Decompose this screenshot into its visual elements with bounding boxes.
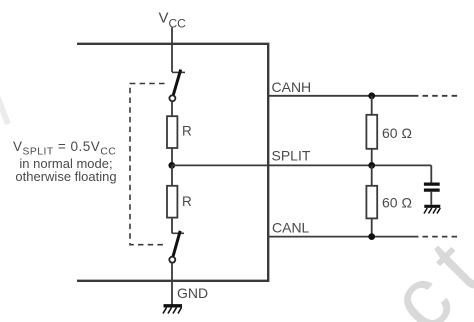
svg-text:R: R: [182, 194, 192, 209]
capacitor C1: [424, 184, 440, 190]
svg-text:60 Ω: 60 Ω: [382, 195, 412, 211]
resistor R2 (lower R): [167, 186, 177, 218]
wire CANH dashed continuation: [423, 95, 460, 97]
node CANL junction: [368, 233, 375, 240]
svg-text:CANL: CANL: [272, 220, 310, 236]
wire CANH node to RT1: [371, 96, 373, 115]
wire SPLIT node to R lower: [171, 165, 173, 185]
wire CANL (pin to bus): [268, 236, 418, 238]
resistor R1 (upper R): [167, 116, 177, 148]
wire C1 to ground: [430, 192, 432, 205]
wire CANL dashed continuation: [423, 236, 460, 238]
svg-text:ct: ct: [370, 212, 474, 322]
wire CANH (pin to bus): [268, 95, 418, 97]
ground symbol (main GND): [163, 306, 182, 314]
wire S2 to GND: [171, 263, 173, 305]
wire RT1 to SPLIT node: [371, 149, 373, 166]
annotation VSPLIT equation: [13, 139, 117, 184]
svg-text:V: V: [159, 10, 169, 27]
supply VCC label: [159, 10, 187, 31]
watermark: [370, 212, 474, 322]
svg-text:R: R: [182, 124, 192, 139]
wire SPLIT corner down to capacitor C1: [430, 165, 432, 182]
watermark streak (left edge): [0, 98, 8, 124]
svg-text:GND: GND: [177, 285, 208, 301]
wire SPLIT node to RT2: [371, 165, 373, 185]
svg-text:VSPLIT = 0.5VCC: VSPLIT = 0.5VCC: [13, 139, 116, 158]
wire R1 to SPLIT node: [171, 148, 173, 165]
wire R2 to switch S2: [171, 218, 173, 234]
svg-text:CANH: CANH: [272, 79, 312, 95]
svg-text:60 Ω: 60 Ω: [382, 125, 412, 141]
svg-text:SPLIT: SPLIT: [272, 148, 311, 164]
wire RT2 to CANL node: [371, 218, 373, 236]
switch S2: [169, 231, 184, 263]
resistor RT2 60 ohm (lower termination): [366, 186, 377, 219]
resistor RT1 60 ohm (upper termination): [366, 115, 377, 149]
svg-text:otherwise floating: otherwise floating: [15, 169, 116, 184]
dashed control box linking S1 and S2: [130, 84, 165, 245]
switch S1: [169, 70, 185, 102]
wire SPLIT net (junction to pin and over to capacitor corner): [172, 164, 432, 166]
IC outline U1 (transceiver box, open on left): [77, 44, 268, 281]
ground symbol (capacitor): [424, 206, 440, 213]
wire S1 to R upper: [171, 101, 173, 116]
node SPLIT junction (inside IC): [168, 162, 175, 169]
node SPLIT bus junction: [368, 162, 375, 169]
wire VCC to switch S1: [171, 28, 173, 73]
node CANH junction: [368, 92, 375, 99]
